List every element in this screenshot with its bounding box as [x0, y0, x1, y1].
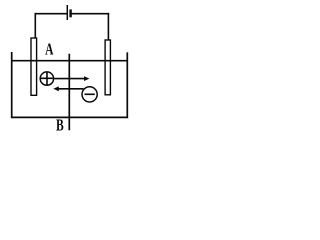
liquid surface line	[11, 60, 128, 62]
negative ion circle	[82, 87, 97, 102]
arrow right (positive ion velocity)	[54, 78, 85, 80]
wire left vertical drop	[34, 13, 36, 38]
negative ion minus sign	[85, 93, 95, 95]
electrode plate left	[31, 38, 37, 95]
line AB vertical	[68, 54, 70, 131]
arrow left (negative ion velocity)	[59, 88, 84, 90]
svg-text:B: B	[56, 117, 64, 134]
wire top-left horizontal	[35, 13, 68, 15]
electrode plate right	[105, 40, 110, 95]
wire right vertical drop	[107, 13, 109, 40]
positive ion circle	[40, 72, 53, 85]
tank walls (left, bottom, right)	[12, 52, 128, 117]
svg-text:A: A	[45, 41, 54, 60]
battery BT long plate (+)	[66, 5, 68, 20]
wire top-right horizontal	[71, 13, 110, 15]
battery BT short plate (-)	[69, 9, 71, 17]
positive ion plus sign	[41, 73, 54, 86]
